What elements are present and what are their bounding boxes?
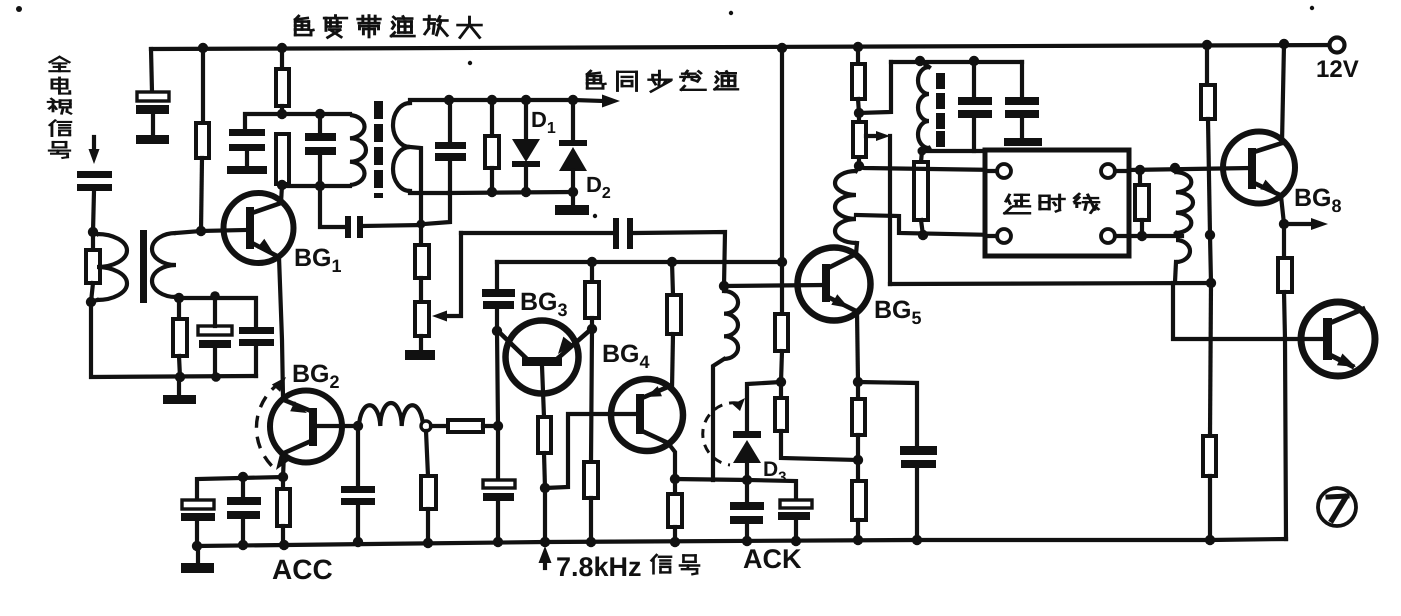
junction on rail x=203 (198, 43, 208, 53)
wire: delay out bottom (1129, 234, 1182, 238)
label 12V (1316, 56, 1359, 83)
transistor BG5 (798, 248, 871, 321)
wire: node to D3 top (747, 382, 781, 432)
wire: BG5 collector up (856, 243, 857, 254)
label D2 (586, 172, 611, 202)
speck (16, 6, 22, 12)
wire: rail down x782 (780, 48, 784, 262)
wire: collector node down (320, 186, 344, 227)
ground: main rail ground (181, 546, 214, 573)
junction on rail x=282 (277, 43, 287, 53)
wire: BG5 emitter down (857, 311, 858, 382)
junction tank x=573 (568, 95, 578, 105)
resistor R18 (1135, 170, 1149, 236)
resistor R15e (852, 382, 865, 460)
node rail x=858 (853, 535, 863, 545)
node rail x=1210 (1205, 535, 1215, 545)
label BG3 (520, 288, 568, 320)
node: BG5 base top (719, 281, 729, 291)
transformer T1 primary (91, 232, 127, 302)
node: x179 y298 (174, 293, 184, 303)
capacitor C4 (424, 100, 466, 224)
svg-text:ACK: ACK (743, 544, 802, 574)
node rail x=498 (493, 537, 503, 547)
wire: secondary bottom to tank rail (410, 191, 449, 193)
node: tank2 bottom (918, 147, 927, 156)
node: BG4 emitter (670, 474, 680, 484)
wire: node left to C2 (245, 114, 282, 129)
wire: emitter to C18 (858, 382, 917, 446)
capacitor C13 trimmer (778, 500, 812, 541)
wire: x1210 y283-436 (1210, 283, 1211, 436)
inductor L6 tank2 (918, 62, 929, 151)
node rail x=747 (742, 536, 752, 546)
wire: BG1 emitter down to BG2 (279, 257, 283, 397)
label 7.8kHz信号 (556, 552, 699, 582)
wire: y113 to tank rail (859, 62, 891, 113)
resistor R6 (277, 477, 290, 545)
capacitor C10 (to BG3 collector) (482, 262, 515, 331)
figure number 7 (1318, 488, 1356, 526)
node: x1142 y236 (1137, 231, 1147, 241)
inductor L2 (BG5 base) (724, 286, 738, 359)
wire: BG3 base down (542, 366, 544, 417)
node: x216 y377 (211, 372, 221, 382)
capacitor C1 electrolytic (rail decoupling) (136, 92, 169, 135)
label ACK (743, 544, 802, 574)
wire: BG4 emitter down (668, 443, 675, 479)
node: x1140 y170 (1135, 165, 1145, 175)
wire: emitter column down (591, 329, 592, 462)
wiper arrow R16 (866, 131, 890, 284)
wire: emitter node to D3 node (675, 479, 747, 480)
node: BG2 collector (278, 472, 288, 482)
diode D2 (559, 100, 587, 205)
node rail x=796 (791, 536, 801, 546)
node rail x=284 (279, 540, 289, 550)
capacitor C16 trimmer (198, 296, 232, 377)
transistor BG8 (1223, 132, 1295, 204)
node rail x=917 (912, 535, 922, 545)
dashed arc: AGC control around BG2 (256, 377, 289, 470)
svg-text:12V: 12V (1316, 56, 1359, 83)
wire: L3 tap to delay line bottom-left (856, 215, 997, 235)
inductor L4 (1175, 168, 1193, 236)
terminal: delay in top-left (985, 164, 1011, 178)
junction: C3 top (315, 109, 325, 119)
capacitor C2 (bypass) (229, 129, 265, 166)
node: x215 y296 (210, 291, 220, 301)
wire: collector column (497, 331, 498, 426)
wire: R2 to node (280, 106, 284, 114)
svg-text:ACC: ACC (272, 554, 333, 585)
wire: +12V top rail (151, 45, 1337, 49)
wire: tank2 bottom (920, 149, 985, 153)
junction: C3 bottom (315, 181, 325, 191)
transistor BG2 (270, 391, 342, 463)
resistor R12 (668, 479, 682, 542)
resistor R7 (421, 476, 436, 509)
node rail x=675 (670, 537, 680, 547)
label BG4 (602, 340, 650, 372)
wire: RP1 to ground (419, 336, 423, 351)
potentiometer RP1 (415, 302, 429, 336)
capacitor C12 (730, 480, 764, 541)
terminal: delay out bottom-right (1101, 229, 1129, 243)
wire: R10 to rail (589, 498, 593, 542)
delay line box (985, 150, 1129, 256)
wire: x782 to R13 (780, 262, 784, 314)
resistor R2 (collector feed) (276, 69, 289, 106)
wire: secondary top to tank rail (410, 100, 448, 103)
wire: delay out top to BG7 base (1129, 168, 1249, 170)
capacitor C6 (coupling to BG5) (613, 218, 633, 249)
wire: node to BG4 base (545, 414, 637, 488)
resistor R8 (BG3 base) (538, 417, 551, 453)
wire: rail to R2 (280, 48, 284, 69)
wire: x1210 y235-283 (1210, 235, 1211, 283)
wire: secondary tap (410, 147, 421, 224)
resistor R10 (584, 462, 598, 498)
terminal: 12V supply (1330, 38, 1345, 53)
node: x1175 y168 (1170, 163, 1180, 173)
node: x782 y262 (777, 257, 787, 267)
resistor R15 (delay term) (914, 151, 928, 235)
resistor R7h (horizontal) (448, 420, 483, 432)
transformer T1 secondary (152, 233, 176, 297)
node: T1 primary top (88, 227, 98, 237)
arrow: chroma output (1284, 218, 1328, 230)
terminal: delay out top-right (1101, 164, 1129, 178)
wire: primary top (282, 112, 350, 116)
transistor BG4 (611, 379, 683, 451)
terminal: L1 right (open) (421, 421, 431, 431)
inductor L1 (359, 403, 423, 426)
node: x180 y377 (175, 372, 185, 382)
resistor R9 (585, 262, 599, 329)
wire: BG8 emitter down (1281, 196, 1284, 224)
capacitor C8 trimmer (181, 500, 215, 546)
wire: base node to BG1 (201, 230, 246, 231)
wire: T1 sec bottom (176, 297, 179, 298)
node: R15 bottom (918, 230, 928, 240)
node: tap junction (417, 220, 426, 229)
speck (1310, 6, 1314, 10)
node: BG5 emitter divider top (853, 377, 863, 387)
node: BG3 collector column (493, 421, 503, 431)
resistor R11 (667, 262, 681, 389)
junction tank2 x=920 (915, 56, 925, 66)
label D1 (531, 107, 556, 137)
wire: echo line y283 (890, 283, 1211, 284)
wire: BG1 collector up (281, 185, 282, 203)
core: tank2 (dashed) (936, 73, 945, 147)
terminal: delay in bottom-left (985, 229, 1011, 243)
speck (468, 61, 472, 65)
junction y262 x=672 (667, 257, 677, 267)
transistor BG1 (224, 193, 294, 263)
wire: primary bottom (282, 184, 350, 188)
wire: delay line top-left wire (859, 166, 997, 170)
wire: BG5 base lead (724, 285, 823, 286)
wire: down to BG6 base (1173, 283, 1324, 339)
resistor R17 (852, 47, 865, 113)
ground: below C2 (227, 166, 267, 174)
label 色同步选通 (burst gate label) (587, 71, 737, 92)
junction on rail x=782 (777, 43, 787, 53)
ground: above delay line (1004, 138, 1042, 146)
arrow: composite video input (89, 137, 100, 164)
wire: rail end down (151, 49, 152, 92)
speck (729, 11, 733, 15)
node: 7.8kHz injection (540, 483, 550, 493)
node rail x=545 (540, 537, 550, 547)
resistor R4 (485, 100, 499, 192)
wire: tank2 top rail (891, 60, 1022, 64)
wire: T1 sec top to BG1 base (176, 231, 201, 233)
label BG1 (294, 244, 342, 276)
junction tank bottom x=573 (568, 187, 578, 197)
capacitor C14 (958, 61, 992, 151)
resistor R13 (775, 314, 788, 351)
arrow: 7.8kHz signal input (539, 546, 552, 568)
node: BG3 collector (492, 326, 502, 336)
node: T1 primary bottom (86, 297, 96, 307)
junction on rail x=1207 (1202, 40, 1212, 50)
wire: BG2 base lead (317, 424, 358, 428)
capacitor C5 (coupling) (345, 216, 363, 238)
capacitor C17 (239, 327, 274, 376)
wire: emitter chain to bottom rail (1285, 339, 1286, 539)
wire: C6 to BG5 base elbow (633, 232, 725, 286)
junction y262 x=592 (587, 257, 597, 267)
resistor R16 pot (853, 113, 866, 166)
label ACC (272, 554, 333, 585)
resistor R23 (173, 298, 187, 377)
wire: rail down x1207 (1205, 45, 1209, 85)
ground: T1 network (163, 377, 196, 404)
node: BG2 base (353, 421, 363, 431)
node: x1211 y283 (1206, 278, 1216, 288)
transformer T2 core (dashed) (374, 101, 383, 198)
node: BG5 collector top (854, 161, 864, 171)
junction tank x=492 (487, 95, 497, 105)
node rail x=243 (238, 540, 248, 550)
resistor R3 (T2 primary shunt) (276, 134, 289, 184)
label BG8 (1294, 184, 1342, 216)
wire: L2 bottom jog (713, 359, 724, 480)
wire: R7 to rail (426, 509, 430, 543)
junction tank x=449 (444, 95, 454, 105)
wire: R1 to base node (201, 158, 202, 231)
junction tank bottom x=526 (521, 187, 531, 197)
wire: y262 feed rail (497, 260, 782, 264)
node: BG3 emitter (587, 324, 597, 334)
transformer T2 primary winding (350, 115, 366, 185)
node rail x=358 (353, 537, 363, 547)
resistor R22 (T1 damping) (86, 232, 100, 302)
dashed arc: around D3 (703, 398, 745, 465)
node rail x=591 (586, 537, 596, 547)
label BG5 (874, 296, 922, 328)
capacitor C19 input (77, 171, 112, 232)
resistor R5 (415, 224, 429, 302)
wire: L1 node down (426, 431, 428, 476)
label 延时线 (delay line) (1005, 194, 1099, 213)
wire: BG8 collector up (1282, 44, 1284, 143)
junction tank x=526 (521, 95, 531, 105)
transformer T1 core (140, 230, 147, 303)
wire: y298 wire (179, 298, 256, 327)
wire: R13 down (781, 351, 782, 382)
wire: wiper line right (461, 231, 613, 235)
resistor R20 (1203, 436, 1216, 476)
wire: node to rail (543, 488, 547, 542)
capacitor C3 (T2 tank) (305, 114, 336, 186)
wire: collector node left (197, 477, 283, 500)
junction on rail x=1284 (1279, 39, 1289, 49)
node: BG1 base (196, 226, 206, 236)
junction on rail x=858 (853, 42, 863, 52)
wire: bottom of T1 network (91, 302, 256, 377)
ground: below C1 (136, 135, 169, 144)
node rail x=428 (423, 538, 433, 548)
wire: tank bottom rail (449, 192, 573, 193)
resistor R19 (1201, 85, 1215, 119)
diode D1 (512, 100, 540, 192)
inductor L3 (BG5 collector) (835, 166, 859, 243)
wire: C5 to tap node (363, 225, 421, 226)
resistor R16e (852, 460, 866, 540)
wire: R7h to node (483, 424, 498, 428)
resistor R21 (1278, 224, 1292, 339)
wire: R20 to rail (1208, 476, 1212, 540)
node: BG1 collector (277, 180, 287, 190)
wire: D3 node right (747, 480, 796, 500)
resistor R14 (775, 382, 858, 460)
capacitor C7 (BG2 base bypass) (341, 426, 375, 543)
capacitor C11 electrolytic (483, 431, 515, 542)
node: BG8 emitter (1279, 219, 1289, 229)
svg-text:7.8kHz: 7.8kHz (556, 552, 642, 582)
wire: bottom rail (ACC/ACK ground) (197, 539, 1286, 546)
ground: below D2 (555, 205, 589, 215)
transformer T2 secondary winding (393, 103, 410, 191)
resistor R1 (BG1 base bias) (196, 123, 209, 158)
capacitor C15 (1005, 62, 1039, 138)
wire: rail to R1 (201, 48, 205, 123)
wire: to R7h (431, 424, 448, 428)
node: emitter divider mid (853, 455, 863, 465)
wire: BG2 collector down (283, 453, 284, 477)
inductor L5 (1175, 240, 1190, 282)
wire: R19 down (1208, 119, 1210, 235)
speck (593, 214, 597, 218)
ground: below RP1 (405, 350, 435, 360)
node: BG1 feed (277, 109, 287, 119)
label D3 (763, 458, 787, 486)
transistor BG3 (499, 321, 589, 394)
wire: burst gate output arrow (573, 95, 620, 108)
node: x1210 y235 (1205, 230, 1215, 240)
diode D3 (733, 431, 761, 480)
node: x859 y113 (854, 108, 864, 118)
node: x781 y382 (776, 377, 786, 387)
wire: R8 to node (544, 453, 545, 488)
junction tank2 x=974 (969, 56, 979, 66)
node rail x=197 (192, 541, 202, 551)
node: D3 anode (742, 475, 752, 485)
capacitor C9 (227, 479, 261, 545)
wiper arrow RP1 (432, 233, 461, 322)
wire: tank top rail (448, 98, 573, 102)
capacitor C18 (900, 446, 937, 540)
junction: C9 top (238, 472, 248, 482)
label BG2 (292, 360, 340, 392)
transistor BG6 (1301, 302, 1375, 376)
label 色度带通放大 (chroma bandpass amplifier title) (295, 16, 481, 38)
junction tank bottom x=492 (487, 187, 497, 197)
label 全电视信号 (composite video input, vertical) (48, 57, 71, 158)
